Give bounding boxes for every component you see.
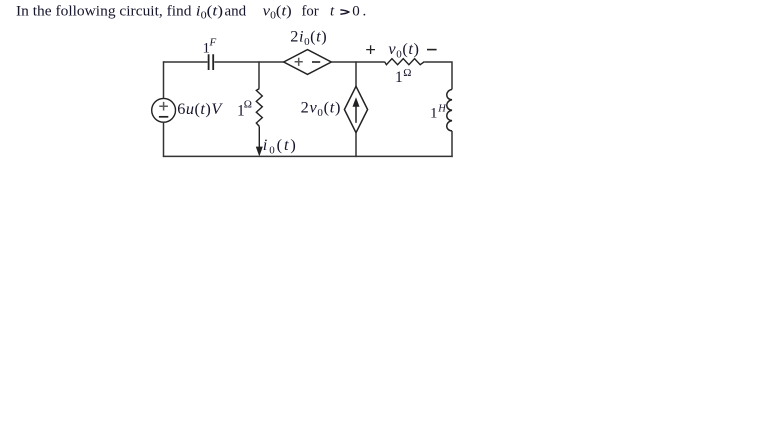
plus sign inside V1 [159,102,168,111]
value label 1 ohm left of R1 [237,99,252,120]
svg-text:and: and [225,4,247,20]
resistor R1 (1 ohm, vertical) [256,89,262,127]
label plus for v0(t) [366,45,375,54]
svg-text:v0(t): v0(t) [263,4,292,22]
wire: source V1 to bottom-left corner [163,122,165,157]
dependent current source G1 (2v0(t)) diamond [344,86,367,132]
arrowhead for i0(t) [256,147,263,157]
wire: inductor to bottom-right corner [451,131,453,157]
wire with current arrow i0(t): R1 to bottom rail [258,126,260,147]
succeeds symbol [340,10,348,14]
svg-text:.: . [363,4,367,20]
svg-text:Ω: Ω [403,67,411,79]
svg-text:1: 1 [395,69,403,86]
svg-text:2v0(t): 2v0(t) [301,97,341,119]
svg-text:1: 1 [430,106,438,122]
arrow inside G1 pointing up [353,97,360,123]
capacitor C1 (1F) [209,54,214,70]
svg-text:v0(t): v0(t) [388,39,419,61]
wire: G1 to bottom rail [355,133,357,157]
polarity minus inside E1 [312,61,320,63]
svg-text:t: t [330,4,335,20]
minus sign inside V1 [159,116,168,118]
wire: top-left segment from corner to capacitor [163,61,208,63]
svg-text:F: F [209,37,217,49]
svg-text:0: 0 [352,4,360,20]
wire: node B down to resistor R1 [258,61,260,88]
wire: node C down to current source [355,61,357,86]
wire: E1 to node C [331,61,384,63]
svg-text:i0(t): i0(t) [196,4,223,22]
wire: left branch from corner down to source [163,61,165,98]
resistor R2 (1 ohm, horizontal) [385,59,425,65]
svg-text:H: H [437,103,447,114]
svg-text:In the following circuit, find: In the following circuit, find [16,4,192,20]
svg-text:for: for [302,4,319,20]
inductor L1 (1H) [447,89,452,130]
value label 1H left of L1 [430,103,447,121]
svg-text:i0(t): i0(t) [263,135,298,157]
capacitor value label 1F [203,37,217,57]
svg-text:2i0(t): 2i0(t) [290,26,327,48]
polarity plus inside E1 [295,58,303,66]
independent voltage source V1 (6u(t) V) [152,98,176,122]
value label 1 ohm below R2 [395,67,411,86]
wire: R2 to top-right corner and down to inductor [424,62,452,89]
wire: capacitor to node B [214,61,283,63]
svg-text:Ω: Ω [244,99,252,111]
svg-text:6u(t)V: 6u(t)V [177,99,223,118]
dependent voltage source E1 (2i0(t)) diamond [284,50,332,75]
wire: bottom rail [163,155,453,157]
label minus for v0(t) [427,49,437,51]
